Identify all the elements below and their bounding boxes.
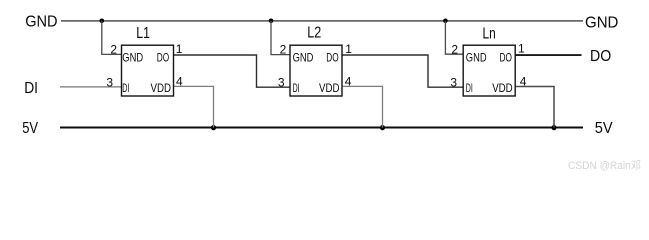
svg-text:3: 3 (278, 75, 285, 89)
svg-text:1: 1 (176, 42, 183, 56)
wire L2 DO to Ln DI (342, 55, 463, 87)
svg-text:GND: GND (293, 51, 314, 65)
node GND junction at L1 (100, 19, 105, 24)
LED module body L2 (290, 45, 342, 96)
wire Ln VDD to 5V rail (515, 87, 554, 128)
node GND junction at L2 (269, 19, 274, 24)
svg-text:CSDN @Rain邓: CSDN @Rain邓 (568, 159, 641, 172)
svg-text:GND: GND (25, 14, 57, 31)
node 5V junction at L2 (380, 125, 385, 130)
svg-text:GND: GND (585, 15, 618, 32)
svg-text:L2: L2 (307, 25, 321, 42)
wire L1 VDD to 5V rail (174, 86, 214, 127)
svg-text:5V: 5V (22, 120, 38, 137)
svg-text:4: 4 (520, 74, 527, 88)
svg-text:DO: DO (500, 51, 512, 65)
svg-text:3: 3 (450, 75, 457, 89)
svg-text:1: 1 (345, 42, 352, 56)
svg-text:DI: DI (466, 81, 473, 95)
node 5V junction at L1 (211, 125, 216, 130)
node 5V junction at Ln (551, 125, 556, 130)
svg-text:DO: DO (157, 51, 169, 65)
svg-text:4: 4 (345, 74, 352, 88)
svg-text:DO: DO (590, 48, 611, 65)
wire 5V rail (bottom) (60, 126, 583, 128)
svg-text:2: 2 (280, 43, 287, 57)
wire GND drop to L1 pin 2 (102, 21, 122, 55)
wire GND drop to L2 pin 2 (271, 21, 290, 55)
svg-text:2: 2 (451, 43, 458, 57)
svg-text:DO: DO (326, 51, 338, 65)
svg-text:DI: DI (293, 81, 300, 95)
wire DI input (60, 86, 122, 88)
svg-text:VDD: VDD (492, 81, 513, 95)
svg-text:3: 3 (106, 75, 113, 89)
svg-text:L1: L1 (136, 25, 150, 42)
svg-text:VDD: VDD (151, 81, 172, 95)
wire DO output (right) (515, 54, 581, 56)
LED module body Ln (463, 45, 515, 96)
svg-text:4: 4 (176, 74, 183, 88)
LED module body L1 (122, 45, 174, 96)
svg-text:5V: 5V (595, 120, 613, 137)
svg-text:1: 1 (518, 42, 525, 56)
svg-text:GND: GND (466, 51, 487, 65)
svg-text:GND: GND (122, 51, 143, 65)
wire GND drop to Ln pin 2 (445, 21, 463, 54)
svg-text:DI: DI (24, 80, 38, 97)
svg-text:Ln: Ln (483, 26, 496, 43)
wire GND rail (top) (61, 20, 583, 22)
wire L2 VDD to 5V rail (342, 86, 383, 127)
svg-text:VDD: VDD (319, 81, 340, 95)
svg-text:2: 2 (110, 43, 117, 57)
node GND junction at Ln (443, 19, 448, 24)
wire L1 DO to L2 DI (174, 55, 291, 87)
svg-text:DI: DI (122, 81, 129, 95)
